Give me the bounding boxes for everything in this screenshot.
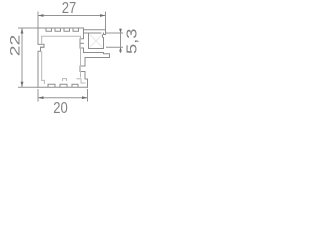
shelf / lower arm [84,53,110,67]
svg-text:27: 27 [62,0,77,17]
hatch X inside square [90,34,103,47]
right edge upper with slot [80,28,84,53]
profile body outline [38,28,110,87]
right upper slot mid line [80,42,84,44]
dimension line 22 [18,28,38,87]
channel top surface [84,32,102,34]
bottom edge with grooves [38,84,88,87]
svg-text:5,3: 5,3 [124,29,140,55]
cavity top wall [42,35,81,37]
arrowheads 27 [38,14,106,17]
top edge with grooves [38,28,84,31]
svg-text:22: 22 [7,34,23,56]
cavity bottom wall with notch [42,79,85,84]
dimension line 5,3 [106,29,123,54]
insert square [89,33,104,49]
inner cavity contour [42,36,85,83]
left edge with slot [38,28,44,87]
dimension line 20 [38,89,88,102]
arrowheads 20 [38,96,88,99]
left slot mid line [41,44,45,47]
top-right arm with lip [84,30,106,37]
arrowheads 5,3 [119,29,122,52]
right edge lower slot [80,66,88,87]
cavity right wall [80,36,82,77]
dimension line 27 [38,12,106,30]
cavity left wall [41,36,43,80]
arrowheads 22 [21,28,24,87]
svg-text:20: 20 [53,100,68,117]
